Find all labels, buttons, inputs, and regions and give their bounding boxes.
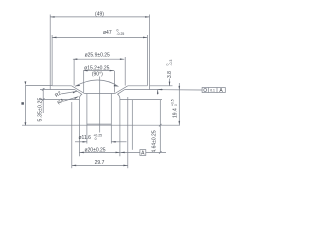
leader R4: [64, 97, 78, 101]
svg-text:0: 0: [95, 137, 97, 141]
part: hub wall right: [119, 99, 121, 125]
part: slope top right: [115, 86, 128, 94]
dimension d15.2+-0.25 line: [83, 70, 114, 72]
svg-text:-0.25: -0.25: [117, 32, 125, 36]
dimension 29.7 line: [72, 164, 128, 166]
wire: extension line right outer (49): [149, 15, 151, 90]
dimension d20+-0.25 line: [79, 151, 120, 153]
wire: extension line left inner (d47): [51, 35, 53, 86]
svg-text:3.8: 3.8: [167, 71, 173, 78]
svg-text:ø20±0.25: ø20±0.25: [84, 148, 105, 154]
dimension 4.64+-0.25 line: [159, 100, 161, 153]
wire: hole ext right: [110, 125, 112, 143]
dimension d11.6 lines with outside arrows: [75, 141, 87, 143]
wire: underside flat ext left (5.35): [40, 99, 79, 101]
svg-text:ø47: ø47: [103, 30, 112, 36]
svg-text:4.64±0.25: 4.64±0.25: [152, 130, 158, 152]
part: slope top left: [72, 86, 85, 94]
wire: rim top ext right: [150, 85, 173, 87]
svg-text:29.7: 29.7: [95, 160, 105, 166]
svg-text:ø11.6: ø11.6: [79, 135, 92, 141]
part: slope bottom left with R4 fillet: [75, 90, 82, 99]
leader R2: [62, 91, 78, 94]
wire: hole ext left: [86, 125, 88, 143]
wire: ext line d25.9 left: [73, 59, 75, 85]
part: rim top right: [128, 85, 148, 87]
datum target square: [21, 102, 24, 105]
part: center flat top surface: [84, 93, 115, 95]
dimension d47 0/-0.25 line: [52, 36, 147, 38]
svg-text:5.35±0.25: 5.35±0.25: [38, 97, 44, 121]
wire: ext line d25.9 right: [124, 57, 126, 86]
part: slope bottom right with R4 fillet: [118, 90, 125, 99]
svg-text:-0.3: -0.3: [169, 60, 173, 66]
part: hub wall left: [78, 99, 80, 125]
dimension d25.9+-0.25 line: [73, 58, 124, 60]
part: hole wall right: [110, 94, 112, 126]
dimension (49) line: [50, 16, 149, 18]
wire: extension line left outer (49): [49, 15, 51, 90]
wire: ext line d15.2 left: [83, 71, 85, 93]
svg-text:ø25.9±0.25: ø25.9±0.25: [85, 52, 110, 58]
dimension 10.4 +0.5/0 line: [178, 83, 180, 125]
wire: d20 ext right: [119, 125, 121, 156]
wire: underside flat ext right: [120, 99, 162, 101]
part: rim bottom left with 5.35 extension: [40, 89, 75, 91]
svg-text:(49): (49): [95, 12, 104, 18]
feature control frame: [202, 88, 225, 93]
svg-text:0: 0: [174, 104, 178, 106]
part: hub bottom inner face second line: [87, 123, 111, 125]
wire: rim top ext to left dim: [25, 85, 52, 87]
svg-text:0.1: 0.1: [210, 88, 215, 92]
wire: ext line d15.2 right: [114, 71, 116, 93]
svg-text:19.4: 19.4: [172, 108, 178, 118]
dimension overall height line left: [24, 85, 26, 125]
part: rim bottom right with extension to 3.8 arrow: [125, 89, 163, 91]
wire: extension line right inner (d47): [146, 35, 148, 86]
feature control frame leader: [158, 89, 202, 91]
wire: vertical at x=132.3: [131, 100, 133, 150]
dimension 3.8 arrow bottom: [157, 90, 159, 95]
datum A box: [140, 150, 146, 156]
dimension (90 deg) angular arc: [75, 80, 119, 87]
part: hub bottom with extensions both sides: [22, 124, 180, 126]
centerline: [99, 77, 101, 133]
datum A leader: [120, 151, 140, 153]
part: rim top left: [52, 85, 72, 87]
wire: 29.7 ext left: [71, 102, 73, 168]
dimension 5.35+-0.2 line: [42, 88, 44, 113]
svg-text:(90°): (90°): [92, 72, 103, 78]
wire: 29.7 ext right: [127, 97, 129, 168]
dimension 3.8 0/-0.3 arrow top: [169, 79, 171, 86]
part: hole wall left: [86, 94, 88, 126]
wire: d20 ext left: [78, 125, 80, 156]
